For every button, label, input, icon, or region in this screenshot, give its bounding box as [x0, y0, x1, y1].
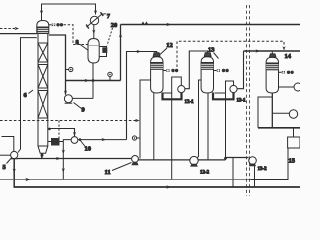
tank 15 — [288, 137, 300, 148]
wire drop below pump 13-2 — [254, 166, 256, 186]
instrument circle on pump 9 suction — [66, 69, 69, 71]
svg-text:12: 12 — [166, 42, 173, 49]
node arrow on transfer line — [85, 79, 89, 82]
wire column suction line to pump 9 — [49, 35, 66, 95]
wire feed riser to reactor 14 line — [237, 51, 243, 89]
node junction dot at column reboiler draw — [48, 128, 51, 131]
wire feed line into column left — [0, 33, 37, 35]
wire feed riser to reactor 13 — [185, 51, 208, 89]
wire manifold segment B — [198, 159, 225, 161]
svg-text:10: 10 — [85, 146, 92, 153]
wire bottoms manifold line — [17, 158, 131, 160]
wire to tank 15 — [293, 128, 295, 137]
fan 7 circle — [90, 16, 98, 24]
label 7 dash — [103, 13, 106, 16]
dashed enclosure box over reactors — [177, 41, 284, 67]
wire reactor 14 bottoms — [271, 93, 273, 128]
node arrow dashed branch into reactor 14 feed line — [282, 46, 285, 50]
wire column side draw to left down-pipe — [18, 38, 37, 153]
svg-text:15: 15 — [289, 158, 296, 165]
wire fan 7 to vessel 8 — [93, 25, 95, 38]
wire tank 15 outlet — [251, 148, 289, 180]
node junction dot vessel 8 pipe on transfer line — [92, 79, 95, 82]
wire pump 10 left line down — [63, 140, 71, 180]
wire column 6 bottoms elbow — [41, 153, 43, 158]
wire manifold pump11 to pump 12-2 — [138, 159, 190, 161]
wire pump 5 discharge down — [13, 159, 15, 187]
wire riser from junction to heavy transfer line — [92, 81, 94, 99]
column 6 bottom cone — [38, 146, 48, 153]
column 6 packing section 1 — [38, 42, 48, 44]
wire thin bottom header — [0, 179, 288, 181]
instrument circle on transfer line — [109, 77, 111, 81]
pump 13-2 — [249, 157, 257, 165]
column 6 shell — [37, 21, 49, 28]
wire dashed instrument line from valve row to vessel 8 — [64, 25, 88, 45]
wire top overhead line from column 6 to fan 7 — [42, 4, 96, 21]
pump 9 — [64, 95, 72, 103]
wire drop reactor 13 bottoms to manifold — [207, 93, 209, 160]
column 6 packing section 3 — [38, 90, 48, 92]
wire drop into reactor 14 nozzle — [271, 51, 273, 54]
label 6 leader — [29, 90, 34, 94]
label 8 leader — [80, 44, 89, 51]
wire pump 12-1 recirc return — [163, 77, 181, 93]
wire drop reactor 12 bottoms to manifold — [153, 93, 155, 160]
heater 10 box — [51, 138, 60, 146]
label 13 leader — [214, 53, 219, 59]
pump 12-1 — [178, 86, 185, 93]
svg-text:13: 13 — [208, 47, 215, 54]
wire riser to top export line — [120, 25, 122, 81]
reactor 12 — [151, 53, 163, 93]
reactor 14 — [266, 54, 278, 93]
instrument circle on drop line — [137, 137, 140, 139]
svg-text:13-1: 13-1 — [237, 99, 247, 104]
label 9 leader — [74, 103, 82, 109]
battery limit double dashed divider — [246, 5, 248, 196]
label 12 leader — [160, 48, 167, 55]
wire drop recirc junction to bottom header — [171, 93, 173, 180]
column 6 packing section 2 — [38, 64, 48, 66]
wire reactor 12 left nozzle drop line — [140, 80, 151, 159]
instrument circle right — [289, 110, 297, 118]
svg-text:11: 11 — [105, 169, 111, 176]
heavy bottom header — [14, 186, 301, 188]
wire dashed branch down at column — [58, 121, 60, 139]
wire branch to instrument — [272, 112, 289, 114]
heavy feed line to reactor 14 — [244, 50, 301, 52]
pump 12-2 — [190, 156, 198, 164]
wire reactor 12 feed riser from pump 10 — [127, 52, 157, 140]
column 6 body — [38, 33, 48, 146]
fan 7 shaft diagonal — [87, 14, 103, 28]
heater 20 element — [102, 47, 107, 53]
vessel 8 drum — [88, 39, 99, 64]
pump right edge top — [294, 83, 302, 91]
valve row reactor 13 — [214, 70, 217, 72]
wire reactor 14 side line to pump — [279, 86, 295, 88]
wire drop reactor 13 nozzle to pump 12-2 — [197, 80, 201, 158]
node arrow down into fan 7 — [94, 10, 97, 14]
pump 5 — [11, 151, 18, 158]
valve row reactor 14 — [279, 71, 282, 73]
heavy top export line — [121, 24, 301, 26]
heater 20 side loop on vessel 8 — [99, 47, 106, 57]
wire drop right of junction — [232, 158, 234, 187]
svg-text:12-2: 12-2 — [200, 171, 210, 176]
column 6 top hatched band — [37, 27, 49, 33]
wire branch to left drop — [258, 97, 272, 128]
label 20 leader dashed — [107, 28, 113, 46]
wire pump 5 suction from left edge — [0, 154, 11, 156]
wire drop recirc 13 junction to manifold jog — [225, 93, 227, 158]
wire pump 9 discharge — [72, 97, 93, 99]
wire pump 10 discharge to riser — [78, 139, 127, 141]
label 10 leader — [80, 140, 86, 147]
wire column reboiler draw line — [48, 129, 75, 137]
svg-text:14: 14 — [285, 53, 292, 60]
reactor 13 — [201, 53, 213, 93]
wire pump 5 suction bracket — [2, 137, 14, 152]
svg-text:20: 20 — [111, 22, 118, 29]
svg-text:12-1: 12-1 — [185, 100, 195, 105]
wire vessel 8 bottoms down — [92, 63, 94, 99]
pump 11 — [132, 156, 139, 163]
pump 10 — [71, 137, 78, 144]
label 11 leader — [112, 163, 132, 171]
label 5 leader — [7, 158, 12, 164]
wire reactor 12 bottoms loop to pump 12-1 — [163, 93, 182, 100]
wire reactor 13 bottoms loop to pump 13-1 — [213, 93, 234, 100]
valve row reactor 12 — [163, 70, 166, 72]
pump 13-1 — [230, 85, 237, 92]
wire pump 13-1 recirc return — [215, 81, 234, 93]
node arrow up on column overhead — [40, 8, 43, 12]
wire dashed feed line left — [0, 28, 16, 30]
node arrow on export line — [166, 23, 171, 26]
wire long dashed utility line — [0, 120, 136, 122]
node double tick on export line — [142, 21, 148, 24]
valve row at column 6 top — [49, 24, 52, 26]
heavy transfer line mid left — [66, 80, 121, 82]
svg-text:13-2: 13-2 — [258, 167, 268, 172]
heavy product line right — [258, 127, 300, 129]
